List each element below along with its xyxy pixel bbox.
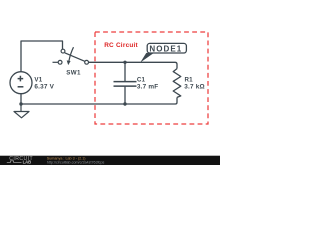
node flag NODE1 box	[147, 43, 186, 53]
wire C1 bottom	[124, 87, 126, 104]
watermark bar	[0, 156, 220, 165]
switch SW1	[53, 47, 89, 64]
svg-text:SW1: SW1	[66, 69, 81, 76]
wire V1 bottom	[20, 94, 22, 104]
bottom wire	[21, 97, 177, 104]
svg-text:6.37 V: 6.37 V	[34, 84, 54, 91]
svg-text:3.7 mF: 3.7 mF	[137, 84, 158, 91]
wire C1 top	[124, 62, 126, 81]
svg-text:RC Circuit: RC Circuit	[104, 42, 138, 49]
svg-text:http://circuitlab.com/c/2a4zt7: http://circuitlab.com/c/2a4zt763fcps	[47, 161, 105, 165]
svg-text:V1: V1	[34, 77, 42, 84]
switch actuation arrow	[69, 47, 74, 61]
svg-text:3.7 kΩ: 3.7 kΩ	[184, 84, 205, 91]
junction dot at V1 bottom	[19, 102, 22, 105]
wire top from V1 to SW1	[21, 41, 63, 72]
svg-text:R1: R1	[185, 77, 194, 84]
switch terminal A circle	[61, 49, 65, 53]
switch terminal B open circle	[58, 60, 62, 64]
RC Circuit dashed box	[95, 32, 208, 124]
node flag NODE1 tail	[140, 53, 153, 63]
voltage source V1	[10, 72, 32, 94]
capacitor C1	[114, 82, 137, 87]
switch blade	[65, 53, 85, 62]
logo waveform	[7, 161, 22, 163]
junction dot at C1 top	[123, 61, 126, 64]
switch arrow head	[67, 60, 71, 65]
svg-text:NODE1: NODE1	[149, 44, 182, 53]
resistor R1	[173, 69, 181, 98]
svg-text:LAB: LAB	[23, 160, 32, 165]
switch common terminal circle	[85, 60, 89, 64]
wire SW1 to R1	[89, 62, 178, 68]
ground	[14, 104, 29, 118]
svg-text:C1: C1	[137, 77, 146, 84]
switch terminal stub	[53, 61, 59, 63]
junction dot at C1 bottom	[123, 102, 126, 105]
